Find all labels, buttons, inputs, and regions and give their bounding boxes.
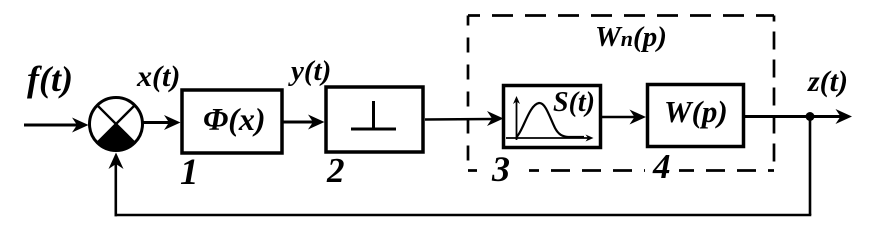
block 3 — [504, 86, 601, 148]
arrowhead into block 3 — [487, 111, 504, 126]
output arrowhead — [836, 109, 853, 124]
wire summer to block 1 — [143, 121, 170, 124]
svg-text:Φ(x): Φ(x) — [203, 101, 266, 137]
block 2 — [326, 87, 423, 152]
wire block 4 to output — [745, 115, 843, 118]
impulse curve in block 3 — [517, 103, 585, 137]
arrowhead into block 1 — [164, 115, 181, 130]
wire block 1 to block 2 — [283, 121, 314, 124]
svg-text:z(t): z(t) — [807, 65, 848, 98]
svg-text:S(t): S(t) — [553, 87, 595, 118]
svg-text:Wп(p): Wп(p) — [595, 21, 667, 53]
label 4 — [645, 162, 679, 174]
svg-text:W(p): W(p) — [664, 94, 728, 129]
arrowhead into summer — [72, 118, 89, 133]
svg-text:y(t): y(t) — [288, 55, 331, 87]
svg-text:1: 1 — [180, 152, 199, 193]
wire block 3 to block 4 — [602, 116, 635, 119]
dashed box Wп(p) — [468, 16, 774, 171]
svg-text:3: 3 — [491, 149, 510, 189]
block 1 — [182, 90, 282, 153]
svg-text:2: 2 — [326, 151, 345, 190]
feedback wire bottom — [115, 214, 812, 217]
feedback wire up to summer — [115, 160, 118, 216]
summing junction — [90, 98, 143, 151]
svg-text:x(t): x(t) — [136, 60, 180, 93]
feedback wire down from node — [809, 117, 812, 216]
block 4 — [648, 85, 744, 147]
wire input f(t) — [24, 124, 80, 127]
node (takeoff point) — [806, 112, 815, 121]
arrowhead into block 4 — [630, 110, 647, 125]
svg-text:f(t): f(t) — [27, 59, 73, 99]
wire block 2 to block 3 — [425, 118, 493, 121]
arrowhead into summer bottom — [109, 153, 124, 170]
label 3 — [481, 155, 529, 177]
relay symbol in block 2 — [351, 128, 396, 131]
svg-text:4: 4 — [652, 147, 671, 186]
arrowhead into block 2 — [308, 115, 325, 130]
axes in block 3 — [516, 100, 518, 140]
